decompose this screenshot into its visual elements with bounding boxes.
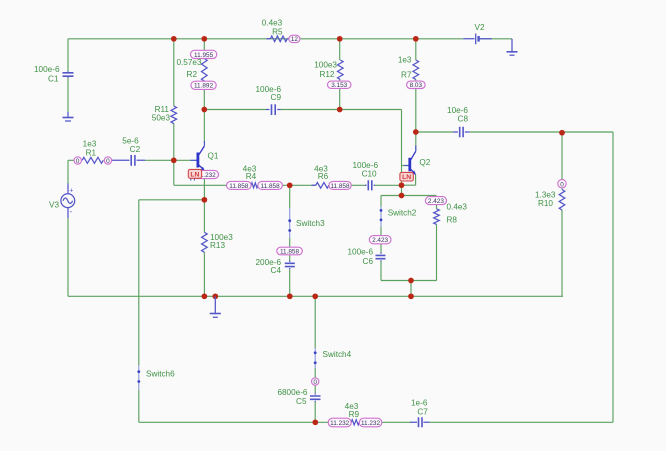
svg-text:0: 0 bbox=[313, 379, 317, 386]
junction mid rail ground bbox=[212, 293, 218, 299]
svg-text:1e3: 1e3 bbox=[83, 139, 97, 148]
wire switch2 branch left side bbox=[380, 196, 382, 281]
wire Q2 emitter bend bbox=[402, 166, 416, 196]
resistor R9 bbox=[351, 420, 359, 425]
resistor R2 bbox=[202, 59, 208, 81]
capacitor C2 bbox=[112, 155, 145, 166]
battery V2 bbox=[463, 34, 492, 45]
junction switch2 box top bbox=[399, 193, 405, 199]
transistor Q1 bbox=[191, 141, 205, 171]
capacitor C9 bbox=[266, 104, 281, 115]
wire mid rail y296.3 bbox=[68, 295, 563, 297]
probe value 0 left of R1 bbox=[74, 157, 81, 165]
svg-text:C6: C6 bbox=[363, 257, 374, 266]
wire C8 line y132 bbox=[416, 132, 613, 422]
junction C8 line R10 bbox=[559, 130, 565, 136]
wire V3 branch down to bottom rail bbox=[67, 160, 69, 296]
junction R4 line switch3 bbox=[287, 182, 293, 188]
svg-text:8.03: 8.03 bbox=[410, 82, 423, 89]
junction Q1 base node bbox=[171, 157, 177, 163]
probe value 11.232 at Q1 emitter bbox=[193, 170, 219, 179]
resistor R5 bbox=[267, 36, 290, 42]
resistor R1 bbox=[82, 157, 103, 163]
junction C8 line R7 bbox=[413, 129, 419, 135]
wire C1 branch from top rail to ground bbox=[67, 39, 69, 112]
wire R2 branch from top rail to C9 line bbox=[203, 39, 205, 110]
wire R12 branch bbox=[339, 39, 341, 110]
junction C9 line R2 bbox=[201, 107, 207, 113]
wire R8 branch right side bbox=[436, 205, 438, 281]
svg-text:LN: LN bbox=[402, 174, 411, 181]
svg-text:11.232: 11.232 bbox=[361, 420, 381, 427]
probe value 8.03 below R7 bbox=[407, 81, 426, 89]
svg-text:C4: C4 bbox=[271, 266, 282, 275]
resistor R12 bbox=[337, 60, 343, 79]
probe value 11.892 below R2 bbox=[191, 81, 216, 90]
svg-text:C8: C8 bbox=[458, 115, 469, 124]
ground below C1 bbox=[63, 112, 74, 121]
svg-text:0: 0 bbox=[560, 181, 564, 188]
svg-text:12: 12 bbox=[291, 36, 299, 43]
svg-text:Switch3: Switch3 bbox=[296, 219, 325, 228]
wire Q1 emitter vertical down through R13 to bottom rail bbox=[203, 171, 205, 297]
svg-text:2.423: 2.423 bbox=[372, 237, 388, 244]
transistor Q2 bbox=[405, 146, 417, 175]
svg-text:11.858: 11.858 bbox=[330, 183, 350, 190]
svg-text:R11: R11 bbox=[155, 105, 170, 114]
svg-text:50e3: 50e3 bbox=[152, 114, 171, 123]
resistor R10 bbox=[559, 190, 565, 211]
svg-text:Switch2: Switch2 bbox=[388, 209, 417, 218]
junction mid rail R13 bbox=[202, 293, 208, 299]
junction top rail R7 bbox=[413, 36, 419, 42]
voltage source V3 bbox=[61, 187, 75, 215]
svg-text:+: + bbox=[69, 187, 73, 194]
junction mid rail C4 bbox=[287, 293, 293, 299]
svg-text:R12: R12 bbox=[319, 70, 334, 79]
svg-text:LN: LN bbox=[190, 171, 199, 178]
junction top rail R11 bbox=[171, 36, 177, 42]
resistor R13 bbox=[202, 232, 208, 252]
svg-text:0: 0 bbox=[106, 158, 110, 165]
junction top rail R2 bbox=[201, 36, 207, 42]
resistor R4 bbox=[251, 183, 258, 188]
wire R10 branch bbox=[561, 132, 563, 296]
current marker LN at Q2 bbox=[400, 172, 413, 181]
svg-text:R4: R4 bbox=[246, 172, 257, 181]
svg-text:Switch6: Switch6 bbox=[146, 370, 175, 379]
capacitor C7 bbox=[410, 417, 430, 427]
wire Q1 base lead bbox=[174, 159, 191, 161]
svg-text:1e-6: 1e-6 bbox=[411, 399, 428, 408]
svg-text:V3: V3 bbox=[49, 200, 59, 209]
probe value 3.153 below R12 bbox=[328, 81, 352, 89]
wire Q1 collector vertical bbox=[203, 110, 205, 142]
svg-text:Q2: Q2 bbox=[419, 158, 430, 167]
svg-text:C2: C2 bbox=[130, 145, 141, 154]
resistor R6 bbox=[312, 183, 329, 189]
wire switch2 box top line bbox=[381, 195, 437, 197]
probe value 12 right of R5 bbox=[289, 35, 300, 43]
resistor R7 bbox=[413, 60, 419, 79]
svg-text:2.423: 2.423 bbox=[428, 198, 444, 205]
svg-text:R7: R7 bbox=[401, 71, 412, 80]
svg-text:11.858: 11.858 bbox=[229, 183, 249, 190]
svg-text:R6: R6 bbox=[318, 172, 329, 181]
capacitor C4 bbox=[285, 261, 295, 270]
svg-text:V2: V2 bbox=[474, 23, 484, 32]
wire switch4/C5 branch bbox=[314, 296, 316, 422]
ground on mid rail bbox=[210, 296, 221, 317]
svg-text:C5: C5 bbox=[296, 397, 307, 406]
wire R4 line y185.3 bbox=[282, 184, 401, 186]
current marker LN at Q1 bbox=[188, 169, 201, 180]
svg-text:11.232: 11.232 bbox=[330, 420, 350, 427]
junction mid rail switch2 stub bbox=[408, 293, 414, 299]
svg-text:R1: R1 bbox=[86, 149, 97, 158]
probe value 11.232 left of R9 bbox=[328, 418, 351, 427]
capacitor C8 bbox=[453, 127, 470, 137]
probe value 11.858 right of R6 bbox=[329, 181, 351, 189]
capacitor C6 bbox=[376, 253, 386, 262]
resistor R11 bbox=[171, 106, 177, 124]
svg-text:R2: R2 bbox=[187, 70, 198, 79]
svg-text:R8: R8 bbox=[447, 216, 458, 225]
probe value 11.858 above C4 bbox=[277, 247, 303, 255]
probe value 2.423 above R8 bbox=[425, 197, 446, 205]
svg-text:11.892: 11.892 bbox=[194, 83, 214, 90]
wire top supply rail bbox=[68, 38, 512, 40]
svg-text:C7: C7 bbox=[417, 407, 428, 416]
junction C9 line R12 bbox=[337, 107, 343, 113]
svg-text:R10: R10 bbox=[538, 199, 553, 208]
wire switch2 box bottom line and stub bbox=[381, 281, 437, 297]
junction switch2 box bottom bbox=[408, 278, 414, 284]
wire feedback loop left and bottom rail bbox=[139, 200, 613, 422]
probe value 11.858 right of R4 bbox=[258, 181, 283, 189]
svg-text:R13: R13 bbox=[210, 241, 225, 250]
switch Switch4 bbox=[314, 348, 317, 368]
svg-text:C9: C9 bbox=[271, 93, 282, 102]
probe value 0 above C5 bbox=[312, 378, 319, 386]
wire R7 / Q2 collector vertical bbox=[415, 39, 417, 151]
capacitor C1 bbox=[63, 71, 74, 78]
svg-text:0.57e3: 0.57e3 bbox=[176, 58, 201, 67]
probe value 0 right of R1 bbox=[104, 157, 111, 165]
junction top rail R12 bbox=[337, 36, 343, 42]
svg-text:3.153: 3.153 bbox=[331, 82, 347, 89]
svg-text:100e-6: 100e-6 bbox=[348, 248, 374, 257]
svg-text:0.4e3: 0.4e3 bbox=[447, 202, 468, 211]
svg-text:11.858: 11.858 bbox=[280, 248, 300, 255]
ground of V2 bbox=[507, 39, 518, 55]
wire C9 line y109.5 bbox=[204, 110, 404, 166]
svg-text:R9: R9 bbox=[349, 410, 360, 419]
svg-text:0.4e3: 0.4e3 bbox=[262, 19, 283, 28]
svg-text:100e-6: 100e-6 bbox=[34, 65, 60, 74]
probe value 11.955 above R2 bbox=[191, 50, 217, 59]
capacitor C10 bbox=[365, 180, 375, 190]
junction Q1 emitter feedback node bbox=[202, 197, 208, 203]
svg-text:Q1: Q1 bbox=[208, 151, 219, 160]
switch Switch2 bbox=[380, 207, 383, 227]
svg-text:-: - bbox=[70, 207, 73, 216]
wire V3 leads bbox=[67, 184, 69, 219]
resistor R8 bbox=[434, 209, 440, 225]
svg-text:0: 0 bbox=[76, 158, 80, 165]
probe value 11.232 right of R9 bbox=[359, 418, 382, 427]
svg-text:C10: C10 bbox=[362, 170, 377, 179]
switch Switch6 bbox=[137, 365, 140, 390]
probe value 2.423 above C6 bbox=[369, 236, 391, 245]
switch Switch3 bbox=[288, 208, 291, 238]
wire switch3/C4 branch bbox=[289, 185, 291, 296]
wire input line R1/C2 at y160 bbox=[68, 159, 174, 161]
svg-text:100e3: 100e3 bbox=[314, 61, 337, 70]
junction Q2 emitter node bbox=[399, 182, 405, 188]
wire R11 branch from top rail to base junction and down to R4 line bbox=[174, 39, 227, 186]
svg-text:Switch4: Switch4 bbox=[323, 350, 352, 359]
probe value 0 above R10 bbox=[558, 180, 566, 189]
junction bottom rail C5 bbox=[312, 419, 318, 425]
svg-text:C1: C1 bbox=[48, 74, 59, 83]
svg-text:1e3: 1e3 bbox=[398, 56, 412, 65]
svg-text:11.858: 11.858 bbox=[261, 183, 281, 190]
probe value 11.858 left of R4 bbox=[227, 181, 252, 189]
junction mid rail switch4 bbox=[312, 293, 318, 299]
svg-text:R5: R5 bbox=[272, 27, 283, 36]
capacitor C5 bbox=[310, 393, 321, 402]
